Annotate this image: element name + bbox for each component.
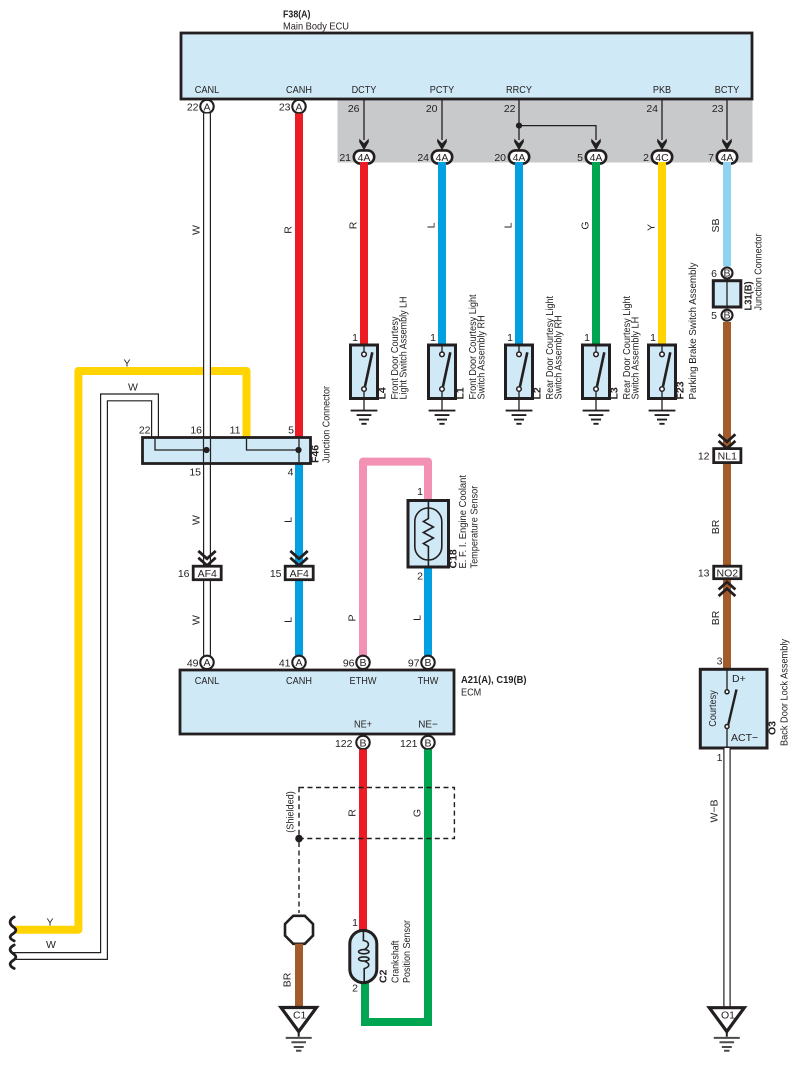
svg-text:22: 22 <box>504 103 516 115</box>
ECM pin 97 B <box>408 656 435 670</box>
svg-text:AF4: AF4 <box>198 568 217 580</box>
switch L1 Front Door Courtesy Light Switch Assembly RH <box>429 294 488 399</box>
svg-text:R: R <box>347 809 359 817</box>
ground under L1 <box>429 391 456 424</box>
svg-text:1: 1 <box>417 486 423 498</box>
noise filter octagon <box>285 916 313 944</box>
svg-text:5: 5 <box>577 152 583 164</box>
svg-text:L1: L1 <box>455 387 467 399</box>
svg-text:23: 23 <box>712 103 724 115</box>
svg-text:Switch Assembly RH: Switch Assembly RH <box>553 315 565 399</box>
svg-text:L: L <box>426 222 438 228</box>
svg-text:C2: C2 <box>378 969 390 983</box>
svg-text:R: R <box>348 221 360 229</box>
svg-text:AF4: AF4 <box>290 568 309 580</box>
wire BR from L31 to back door lock <box>710 322 727 669</box>
svg-text:L3: L3 <box>609 387 621 399</box>
svg-text:41: 41 <box>279 658 291 670</box>
svg-text:P: P <box>347 614 359 621</box>
svg-text:BR: BR <box>710 519 722 534</box>
wire BR from octagon to ground C1 <box>282 944 300 1008</box>
svg-text:A: A <box>295 101 302 113</box>
svg-text:Y: Y <box>46 917 53 929</box>
svg-text:B: B <box>723 267 730 279</box>
wire R CANH from ECU pin 23 to F46 pin 5 <box>283 114 300 438</box>
connector 4A pin 7 <box>708 150 737 164</box>
svg-text:22: 22 <box>139 425 151 437</box>
svg-text:5: 5 <box>288 425 294 437</box>
svg-text:16: 16 <box>190 425 202 437</box>
splice arrow out of NO2 <box>719 582 736 596</box>
pin 23 connector A (CANH) <box>279 100 306 114</box>
svg-text:Switch Assembly RH: Switch Assembly RH <box>476 315 488 399</box>
ground under F23 <box>649 391 676 424</box>
pin 22 connector A (CANL) <box>187 100 214 114</box>
svg-text:A: A <box>295 657 302 669</box>
svg-text:NL1: NL1 <box>718 451 737 463</box>
shield dashed box <box>285 788 455 839</box>
switch L3 Rear Door Courtesy Light Switch Assembly LH <box>583 296 642 400</box>
splice AF4 pin 15 <box>270 566 313 580</box>
svg-text:D+: D+ <box>732 673 746 685</box>
svg-text:Back Door Lock Assembly: Back Door Lock Assembly <box>779 638 791 746</box>
continuation squiggle for wire W <box>10 945 16 969</box>
E.F.I. engine coolant temperature sensor C18 <box>408 475 481 583</box>
svg-text:121: 121 <box>400 738 418 750</box>
svg-text:4: 4 <box>288 467 294 479</box>
connector 4A pin 5 <box>577 150 606 164</box>
svg-text:L: L <box>412 615 424 621</box>
wire Y long run from F46 pin 11 to left edge <box>15 358 247 930</box>
svg-text:BCTY: BCTY <box>715 84 739 96</box>
wire DCTY pin 26 <box>348 100 369 150</box>
wire L to switch L1 <box>426 162 443 345</box>
svg-text:Switch Assembly LH: Switch Assembly LH <box>630 317 642 400</box>
svg-text:22: 22 <box>187 102 199 114</box>
svg-text:15: 15 <box>270 568 282 580</box>
wire L to switch L2 <box>503 162 520 345</box>
svg-text:13: 13 <box>698 568 710 580</box>
svg-text:Courtesy: Courtesy <box>707 690 719 727</box>
wire G from ECM NE- to C2 pin 2 <box>365 750 428 1023</box>
svg-text:G: G <box>412 809 424 817</box>
svg-text:O3: O3 <box>767 721 779 735</box>
svg-text:NE+: NE+ <box>354 719 372 731</box>
junction connector L31(B) pin 5 B <box>711 310 732 323</box>
connector region shading (gray harness block) <box>338 99 753 163</box>
svg-text:DCTY: DCTY <box>352 84 377 96</box>
svg-text:2: 2 <box>643 152 649 164</box>
wire BCTY pin 23 <box>712 100 732 150</box>
svg-text:15: 15 <box>189 467 201 479</box>
svg-text:Y: Y <box>123 358 130 370</box>
svg-text:Y: Y <box>646 224 658 231</box>
switch F23 Parking Brake Switch Assembly <box>649 262 700 400</box>
junction connector L31(B) pin 6 B <box>711 267 732 280</box>
ECM A21(A), C19(B) box <box>180 670 527 734</box>
svg-text:PCTY: PCTY <box>430 84 454 96</box>
svg-text:96: 96 <box>343 658 355 670</box>
svg-text:Junction Connector: Junction Connector <box>753 233 765 310</box>
svg-text:W: W <box>46 939 56 951</box>
crankshaft position sensor C2 <box>350 917 413 995</box>
svg-text:B: B <box>424 737 431 749</box>
svg-text:26: 26 <box>348 103 360 115</box>
svg-text:3: 3 <box>717 656 723 668</box>
svg-text:CANH: CANH <box>286 84 312 96</box>
svg-text:16: 16 <box>178 568 190 580</box>
svg-text:CANL: CANL <box>195 675 220 687</box>
svg-text:W: W <box>191 515 203 525</box>
continuation squiggle for wire Y <box>10 917 16 941</box>
svg-text:BR: BR <box>710 610 722 625</box>
svg-text:NO2: NO2 <box>717 567 739 579</box>
svg-text:B: B <box>723 310 730 322</box>
svg-text:W: W <box>191 225 203 235</box>
svg-text:NE−: NE− <box>418 719 438 731</box>
wire W from F46 pin 22 to left edge <box>14 381 156 956</box>
svg-text:B: B <box>424 657 431 669</box>
svg-text:PKB: PKB <box>653 84 671 96</box>
svg-text:G: G <box>580 221 592 229</box>
svg-text:2: 2 <box>352 983 358 995</box>
svg-text:Crankshaft: Crankshaft <box>390 940 402 983</box>
svg-text:24: 24 <box>646 103 658 115</box>
svg-text:Parking Brake Switch Assembly: Parking Brake Switch Assembly <box>687 262 699 400</box>
svg-text:SB: SB <box>710 218 722 232</box>
svg-text:23: 23 <box>279 102 291 114</box>
connector 4A pin 24 <box>417 150 452 164</box>
svg-text:A: A <box>203 657 210 669</box>
svg-text:L: L <box>283 617 295 623</box>
ground under L2 <box>506 391 533 424</box>
svg-text:1: 1 <box>507 332 513 344</box>
ground under L4 <box>351 391 378 424</box>
svg-text:ETHW: ETHW <box>350 675 377 687</box>
ground O1 <box>709 1008 744 1051</box>
svg-text:F38(A): F38(A) <box>283 9 311 21</box>
svg-text:B: B <box>359 657 366 669</box>
svg-text:20: 20 <box>494 152 506 164</box>
svg-text:THW: THW <box>418 675 439 687</box>
svg-text:L4: L4 <box>377 387 389 399</box>
wire L from C18 pin 2 to ECM THW <box>412 567 429 656</box>
svg-text:O1: O1 <box>721 1010 735 1022</box>
svg-text:(Shielded): (Shielded) <box>285 791 297 833</box>
svg-text:ACT−: ACT− <box>731 732 758 744</box>
svg-text:R: R <box>283 226 295 234</box>
wire W-B to ground O1 <box>709 748 728 1008</box>
wire PKB pin 24 <box>646 100 666 150</box>
svg-text:W: W <box>128 381 138 393</box>
wire G to switch L3 <box>580 162 597 345</box>
svg-text:1: 1 <box>584 332 590 344</box>
svg-text:49: 49 <box>187 658 199 670</box>
svg-text:C1: C1 <box>293 1010 307 1022</box>
svg-text:24: 24 <box>417 152 429 164</box>
svg-text:6: 6 <box>711 268 717 280</box>
wire PCTY pin 20 <box>426 100 447 150</box>
switch L4 Front Door Courtesy Light Switch Assembly LH <box>351 297 410 400</box>
splice arrow into AF4 (CANL) <box>198 551 215 566</box>
svg-text:21: 21 <box>339 152 351 164</box>
main body ECU F38(A) box <box>181 33 752 99</box>
splice AF4 pin 16 <box>178 566 221 580</box>
splice NO2 pin 13 <box>698 566 741 579</box>
svg-text:ECM: ECM <box>461 687 481 699</box>
svg-text:Position Sensor: Position Sensor <box>401 920 413 983</box>
connector 4A pin 20 <box>494 150 529 164</box>
svg-text:L: L <box>503 222 515 228</box>
svg-text:97: 97 <box>408 658 420 670</box>
svg-text:11: 11 <box>230 425 241 437</box>
svg-text:A: A <box>203 101 210 113</box>
svg-text:1: 1 <box>430 332 436 344</box>
svg-text:Light Switch Assembly LH: Light Switch Assembly LH <box>398 297 410 400</box>
svg-text:Temperature Sensor: Temperature Sensor <box>469 485 481 568</box>
shield drain dashed wire <box>298 842 300 913</box>
svg-text:20: 20 <box>426 103 438 115</box>
connector 4C pin 2 <box>643 150 672 164</box>
ground under L3 <box>583 391 610 424</box>
ECM pin 41 A <box>279 656 306 670</box>
svg-text:5: 5 <box>711 310 717 322</box>
svg-text:1: 1 <box>717 752 723 764</box>
svg-text:E. F. I. Engine Coolant: E. F. I. Engine Coolant <box>457 475 469 569</box>
svg-text:Main Body ECU: Main Body ECU <box>283 21 349 33</box>
svg-text:L2: L2 <box>532 387 544 399</box>
wire W CANL from ECU pin 22 to ECM pin 49 <box>191 114 208 656</box>
svg-text:1: 1 <box>650 332 656 344</box>
splice NL1 pin 12 <box>698 449 741 463</box>
ECM pin 49 A <box>187 656 214 670</box>
svg-text:L: L <box>283 517 295 523</box>
wire Y to switch F23 <box>646 162 663 345</box>
svg-text:122: 122 <box>335 738 353 750</box>
wire R from ECM NE+ to C2 pin 1 <box>347 750 364 931</box>
svg-text:BR: BR <box>282 972 294 987</box>
svg-text:1: 1 <box>352 332 358 344</box>
svg-text:W: W <box>191 615 203 625</box>
shield ground junction <box>295 835 303 843</box>
svg-text:F23: F23 <box>675 381 687 399</box>
svg-text:W−B: W−B <box>709 799 721 822</box>
connector 4A pin 21 <box>339 150 374 164</box>
splice arrow into NL1 <box>719 434 736 448</box>
ground C1 <box>281 1008 317 1051</box>
ECM pin 122 B <box>335 736 370 750</box>
splice arrow into AF4 (CANH) <box>290 551 307 566</box>
back door lock assembly O3 box <box>700 638 790 748</box>
svg-text:RRCY: RRCY <box>506 84 532 96</box>
svg-text:B: B <box>359 737 366 749</box>
svg-text:Junction Connector: Junction Connector <box>321 386 333 463</box>
ECM pin 96 B <box>343 656 370 670</box>
wire L from F46 pin 4 to ECM pin 41 <box>283 464 300 656</box>
svg-text:12: 12 <box>698 451 710 463</box>
svg-text:1: 1 <box>352 917 358 929</box>
svg-text:7: 7 <box>708 152 714 164</box>
svg-text:2: 2 <box>417 571 423 583</box>
junction connector F46 body <box>143 386 333 464</box>
svg-text:A21(A), C19(B): A21(A), C19(B) <box>461 674 527 686</box>
junction connector L31(B) body <box>713 233 764 310</box>
wire P from ECM ETHW to C18 pin 1 <box>347 462 429 656</box>
ECM pin 121 B <box>400 736 435 750</box>
wire SB to junction connector L31 <box>710 162 727 267</box>
svg-text:CANL: CANL <box>195 84 220 96</box>
svg-text:CANH: CANH <box>286 675 312 687</box>
wire RRCY pin 22 with branch <box>504 100 601 150</box>
wire R to switch L4 <box>348 162 365 345</box>
switch L2 Rear Door Courtesy Light Switch Assembly RH <box>506 296 565 400</box>
